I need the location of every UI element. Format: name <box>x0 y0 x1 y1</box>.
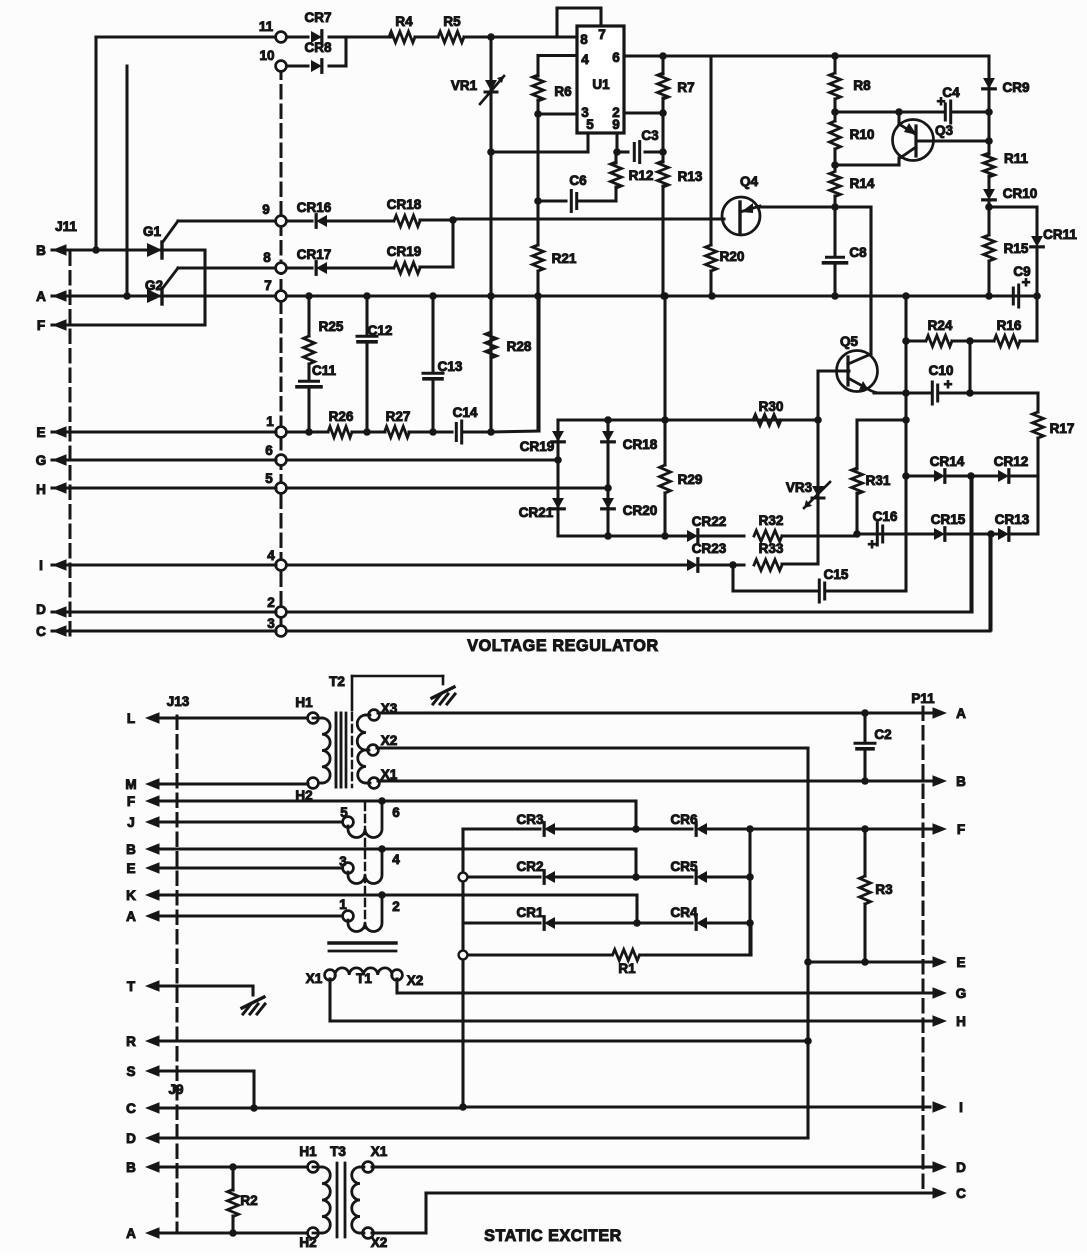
svg-text:5: 5 <box>265 471 273 486</box>
svg-text:F: F <box>957 822 965 837</box>
svg-text:A: A <box>126 909 136 924</box>
svg-text:H1: H1 <box>295 695 313 710</box>
svg-text:R11: R11 <box>1004 151 1029 166</box>
svg-text:4: 4 <box>267 548 275 563</box>
svg-text:F: F <box>37 318 45 333</box>
svg-text:R4: R4 <box>395 14 413 29</box>
svg-text:K: K <box>126 888 136 903</box>
svg-text:C11: C11 <box>312 363 337 378</box>
svg-text:E: E <box>956 955 965 970</box>
svg-text:CR15: CR15 <box>931 512 966 527</box>
svg-text:R21: R21 <box>552 251 577 266</box>
svg-text:CR17: CR17 <box>297 247 332 262</box>
svg-text:R2: R2 <box>240 1193 257 1208</box>
svg-text:X1: X1 <box>371 1144 388 1159</box>
svg-text:L: L <box>127 711 135 726</box>
svg-text:6: 6 <box>612 50 620 65</box>
svg-text:R20: R20 <box>720 249 745 264</box>
svg-text:6: 6 <box>392 805 400 820</box>
svg-text:R31: R31 <box>866 473 891 488</box>
svg-text:A: A <box>126 1226 136 1241</box>
svg-text:M: M <box>125 777 136 792</box>
svg-text:T1: T1 <box>356 971 372 986</box>
svg-text:B: B <box>126 842 136 857</box>
svg-text:4: 4 <box>392 852 400 867</box>
svg-text:C: C <box>956 1186 966 1201</box>
svg-text:CR23: CR23 <box>692 541 727 556</box>
svg-text:CR22: CR22 <box>692 514 727 529</box>
svg-text:+: + <box>944 376 953 393</box>
svg-text:T2: T2 <box>329 674 345 689</box>
svg-text:7: 7 <box>598 27 606 42</box>
svg-text:CR20: CR20 <box>623 503 658 518</box>
svg-text:T: T <box>127 979 136 994</box>
svg-text:CR21: CR21 <box>519 505 554 520</box>
svg-text:8: 8 <box>580 32 588 47</box>
svg-text:VOLTAGE REGULATOR: VOLTAGE REGULATOR <box>467 637 659 655</box>
svg-text:G1: G1 <box>143 224 162 239</box>
svg-text:6: 6 <box>265 443 273 458</box>
svg-text:3: 3 <box>339 854 347 869</box>
svg-text:R12: R12 <box>629 168 654 183</box>
svg-text:R30: R30 <box>759 399 784 414</box>
svg-text:R25: R25 <box>319 319 344 334</box>
svg-text:R28: R28 <box>507 339 532 354</box>
svg-text:C10: C10 <box>929 363 954 378</box>
svg-text:C: C <box>36 624 46 639</box>
svg-text:R6: R6 <box>554 84 572 99</box>
svg-text:B: B <box>36 243 46 258</box>
svg-text:X1: X1 <box>306 971 323 986</box>
svg-text:X2: X2 <box>407 973 424 988</box>
svg-text:4: 4 <box>581 52 589 67</box>
svg-text:C15: C15 <box>824 567 849 582</box>
svg-text:R3: R3 <box>875 882 893 897</box>
svg-text:R32: R32 <box>759 513 784 528</box>
svg-text:C3: C3 <box>641 128 659 143</box>
svg-text:R14: R14 <box>850 176 875 191</box>
svg-text:D: D <box>956 1160 966 1175</box>
svg-text:CR11: CR11 <box>1043 227 1077 242</box>
svg-text:P11: P11 <box>911 691 935 706</box>
svg-text:R29: R29 <box>678 472 703 487</box>
svg-text:CR9: CR9 <box>1002 80 1029 95</box>
svg-text:G: G <box>36 453 47 468</box>
svg-text:CR6: CR6 <box>670 812 697 827</box>
svg-text:A: A <box>956 706 966 721</box>
svg-text:CR7: CR7 <box>304 10 331 25</box>
svg-text:VR3: VR3 <box>786 480 813 495</box>
svg-text:H1: H1 <box>299 1144 317 1159</box>
svg-text:J11: J11 <box>55 219 77 234</box>
svg-text:R10: R10 <box>850 127 875 142</box>
svg-text:E: E <box>36 425 45 440</box>
svg-text:X2: X2 <box>381 733 398 748</box>
svg-text:CR19: CR19 <box>387 244 422 259</box>
svg-text:R13: R13 <box>678 169 703 184</box>
svg-text:2: 2 <box>267 595 275 610</box>
svg-text:3: 3 <box>267 616 275 631</box>
svg-text:CR19: CR19 <box>520 439 555 454</box>
svg-text:C12: C12 <box>368 323 393 338</box>
svg-text:U1: U1 <box>592 77 610 92</box>
svg-text:R7: R7 <box>677 80 694 95</box>
svg-text:C13: C13 <box>438 359 463 374</box>
svg-text:G2: G2 <box>145 278 163 293</box>
svg-text:R27: R27 <box>386 409 411 424</box>
svg-text:J: J <box>127 815 135 830</box>
svg-text:D: D <box>36 602 46 617</box>
svg-text:B: B <box>126 1160 136 1175</box>
svg-text:F: F <box>127 794 135 809</box>
svg-text:1: 1 <box>339 897 347 912</box>
svg-text:R33: R33 <box>759 541 784 556</box>
svg-text:5: 5 <box>586 117 594 132</box>
svg-text:CR4: CR4 <box>670 905 697 920</box>
svg-text:D: D <box>126 1131 136 1146</box>
svg-text:C8: C8 <box>849 245 867 260</box>
svg-text:H2: H2 <box>299 1235 316 1250</box>
svg-text:G: G <box>956 986 967 1001</box>
svg-text:CR5: CR5 <box>670 859 697 874</box>
svg-text:H: H <box>956 1014 966 1029</box>
svg-text:Q3: Q3 <box>935 123 954 138</box>
svg-text:R17: R17 <box>1050 421 1075 436</box>
svg-text:C16: C16 <box>873 509 898 524</box>
svg-text:CR8: CR8 <box>304 40 331 55</box>
svg-text:5: 5 <box>340 805 348 820</box>
svg-text:R15: R15 <box>1004 241 1029 256</box>
svg-text:A: A <box>36 289 46 304</box>
svg-text:CR14: CR14 <box>930 454 965 469</box>
svg-text:VR1: VR1 <box>451 78 478 93</box>
svg-text:R26: R26 <box>329 409 354 424</box>
svg-text:R16: R16 <box>997 318 1022 333</box>
svg-text:+: + <box>868 536 877 553</box>
svg-text:X2: X2 <box>371 1235 388 1250</box>
svg-text:CR2: CR2 <box>516 859 543 874</box>
svg-text:8: 8 <box>263 250 271 265</box>
svg-text:9: 9 <box>612 117 620 132</box>
svg-text:I: I <box>39 558 43 573</box>
svg-text:C2: C2 <box>874 727 891 742</box>
svg-text:9: 9 <box>262 202 270 217</box>
svg-text:C14: C14 <box>453 405 478 420</box>
svg-text:J13: J13 <box>167 694 190 709</box>
svg-text:1: 1 <box>266 414 274 429</box>
svg-text:T3: T3 <box>330 1144 346 1159</box>
svg-text:2: 2 <box>392 899 400 914</box>
svg-text:CR16: CR16 <box>297 200 332 215</box>
svg-text:CR3: CR3 <box>516 812 543 827</box>
svg-text:CR13: CR13 <box>995 512 1030 527</box>
svg-text:Q4: Q4 <box>740 174 759 189</box>
svg-text:CR18: CR18 <box>387 197 422 212</box>
svg-text:I: I <box>959 1100 963 1115</box>
svg-text:R: R <box>126 1034 136 1049</box>
svg-text:R5: R5 <box>443 14 461 29</box>
svg-text:B: B <box>956 774 966 789</box>
svg-text:C6: C6 <box>569 173 587 188</box>
svg-text:R24: R24 <box>928 318 953 333</box>
svg-text:H: H <box>36 482 46 497</box>
svg-text:CR1: CR1 <box>516 905 543 920</box>
svg-text:Q5: Q5 <box>840 334 859 349</box>
svg-text:7: 7 <box>264 278 272 293</box>
svg-text:S: S <box>126 1064 135 1079</box>
svg-text:11: 11 <box>259 19 274 34</box>
svg-text:E: E <box>126 861 135 876</box>
svg-text:10: 10 <box>259 48 274 63</box>
svg-text:R1: R1 <box>618 961 636 976</box>
svg-text:CR10: CR10 <box>1003 186 1038 201</box>
svg-text:C9: C9 <box>1013 264 1030 279</box>
svg-text:CR18: CR18 <box>623 437 658 452</box>
svg-text:STATIC EXCITER: STATIC EXCITER <box>484 1227 622 1245</box>
svg-text:CR12: CR12 <box>994 454 1029 469</box>
svg-text:R8: R8 <box>853 78 871 93</box>
svg-text:C: C <box>126 1101 136 1116</box>
svg-text:C4: C4 <box>942 85 960 100</box>
